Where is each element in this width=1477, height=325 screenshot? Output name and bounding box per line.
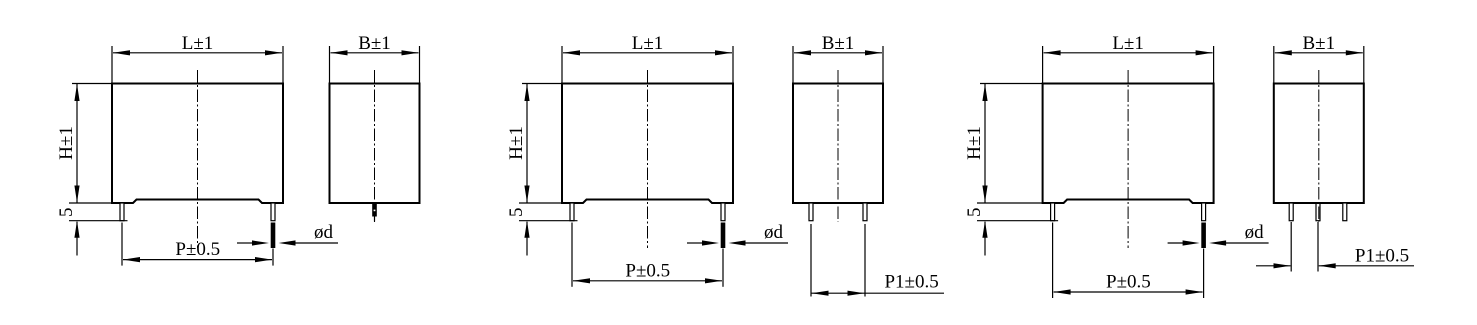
dimension ød lead diameter callout (front view 1) [237, 222, 338, 246]
svg-text:H±1: H±1 [964, 126, 985, 160]
dimension B±1 (side view 2) [793, 33, 883, 84]
right lead (front view 3) [1202, 203, 1206, 221]
svg-text:H±1: H±1 [506, 126, 527, 160]
svg-text:ød: ød [1245, 222, 1265, 243]
svg-text:5: 5 [964, 208, 985, 218]
svg-text:H±1: H±1 [56, 126, 77, 160]
dimension H±1 (front view 1) [56, 84, 119, 204]
svg-text:P±0.5: P±0.5 [1106, 272, 1151, 293]
svg-text:P1±0.5: P1±0.5 [884, 272, 938, 293]
dimension P±0.5 lead spacing (front view 2) [572, 223, 723, 287]
left lead (side view 3) [1289, 203, 1293, 221]
capacitor side view 3 body outline [1274, 84, 1364, 204]
svg-text:P±0.5: P±0.5 [625, 260, 670, 281]
lead wire thick section for ød callout (front view 3) [1201, 223, 1206, 249]
side view 3 vertical centerline [1318, 70, 1320, 222]
svg-text:5: 5 [506, 208, 527, 218]
svg-text:P1±0.5: P1±0.5 [1355, 246, 1409, 267]
svg-text:B±1: B±1 [358, 33, 391, 54]
svg-text:L±1: L±1 [182, 33, 214, 54]
right lead (side view 2) [863, 203, 867, 221]
dimension P1±0.5 lead spacing (side view 2) [811, 224, 944, 297]
capacitor front view 2 body outline [562, 84, 733, 204]
dimension 5 standoff (front view 3) [964, 208, 1058, 256]
capacitor front view 3 body outline [1043, 84, 1214, 204]
dimension 5 standoff (front view 2) [506, 208, 578, 256]
svg-text:ød: ød [764, 222, 784, 243]
front view 1 vertical centerline [197, 70, 199, 248]
left lead (front view 3) [1051, 203, 1055, 221]
side view 1 vertical centerline [374, 70, 376, 222]
dimension H±1 (front view 3) [964, 84, 1050, 204]
svg-text:P±0.5: P±0.5 [175, 239, 220, 260]
front view 3 vertical centerline [1127, 70, 1129, 248]
capacitor front view 1 body outline [112, 84, 283, 204]
dimension ød lead diameter callout (front view 2) [687, 222, 788, 246]
lead wire thick section for ød callout (front view 2) [721, 223, 726, 249]
dimension B±1 (side view 1) [330, 33, 420, 84]
capacitor side view 2 body outline [793, 84, 883, 204]
front view 2 vertical centerline [647, 70, 649, 248]
svg-text:L±1: L±1 [632, 33, 664, 54]
dimension 5 standoff (front view 1) [56, 208, 128, 256]
dimension L±1 (front view 1) [112, 33, 283, 84]
dimension P±0.5 lead spacing (front view 3) [1053, 223, 1204, 299]
left lead (front view 2) [570, 203, 574, 221]
svg-text:B±1: B±1 [822, 33, 855, 54]
lead wire thick section for ød callout (front view 1) [271, 223, 276, 249]
right lead (front view 2) [721, 203, 725, 221]
svg-text:L±1: L±1 [1112, 33, 1144, 54]
dimension B±1 (side view 3) [1274, 33, 1364, 84]
dimension H±1 (front view 2) [506, 84, 569, 204]
svg-text:5: 5 [56, 208, 77, 218]
svg-text:B±1: B±1 [1302, 33, 1335, 54]
dimension P1±0.5 lead spacing (side view 3) [1256, 222, 1414, 272]
left lead (front view 1) [120, 203, 124, 221]
dimension L±1 (front view 3) [1043, 33, 1214, 84]
svg-text:ød: ød [314, 222, 334, 243]
side view 2 vertical centerline [837, 70, 839, 222]
left lead (side view 2) [809, 203, 813, 221]
right lead (front view 1) [271, 203, 275, 221]
single center lead (side view 1) [372, 204, 377, 222]
dimension ød lead diameter callout (front view 3) [1168, 222, 1269, 246]
right lead (side view 3) [1343, 203, 1347, 221]
dimension L±1 (front view 2) [562, 33, 733, 84]
dimension P±0.5 lead spacing (front view 1) [122, 223, 273, 266]
middle lead (side view 3) [1316, 203, 1320, 221]
capacitor side view 1 body outline [330, 84, 420, 204]
